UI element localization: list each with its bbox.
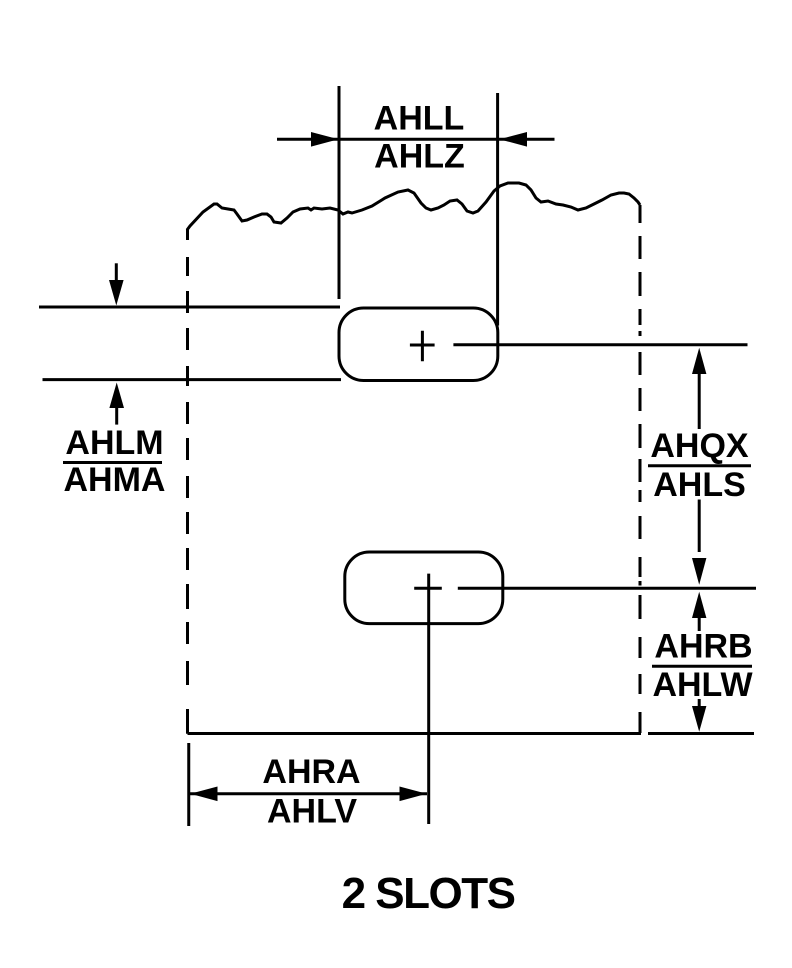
slot 1 (upper) outline bbox=[339, 308, 498, 381]
AHLM up arrow bbox=[109, 383, 124, 425]
AHLL left extension line bbox=[338, 86, 341, 299]
part right dashed edge bbox=[639, 205, 642, 733]
AHRA arrowhead pointing right bbox=[400, 787, 427, 802]
part left dashed edge bbox=[186, 229, 189, 734]
AHLL dimension line bbox=[277, 138, 555, 141]
AHLL arrowhead pointing left bbox=[500, 132, 528, 147]
fraction bar AHQX/AHLS bbox=[648, 464, 751, 467]
part bottom edge bbox=[188, 732, 642, 735]
slot 1 horizontal centerline leader bbox=[453, 343, 747, 346]
AHLM down arrow bbox=[109, 263, 124, 305]
AHQX up arrow with stem bbox=[692, 348, 706, 429]
svg-text:AHLV: AHLV bbox=[267, 793, 357, 831]
part bottom-right extension line bbox=[648, 732, 754, 735]
svg-text:AHRB: AHRB bbox=[654, 628, 752, 666]
AHRA arrowhead pointing left bbox=[190, 787, 217, 802]
AHLM upper extension line bbox=[39, 306, 340, 309]
AHLM lower extension line bbox=[43, 378, 342, 381]
svg-text:AHLS: AHLS bbox=[653, 466, 746, 504]
AHRA left extension line bbox=[187, 743, 190, 826]
slot 1 center cross bbox=[410, 331, 435, 362]
svg-text:2 SLOTS: 2 SLOTS bbox=[342, 869, 515, 918]
AHRA dimension line bbox=[190, 792, 427, 795]
part top break line (jagged) bbox=[187, 183, 640, 230]
slot 2 vertical centerline / AHRA right extension line bbox=[427, 574, 430, 824]
svg-text:AHLZ: AHLZ bbox=[374, 138, 465, 176]
AHLL right extension line bbox=[496, 93, 499, 326]
fraction bar AHRB/AHLW bbox=[652, 665, 752, 668]
slot 2 center cross bbox=[414, 587, 442, 590]
fraction bar AHLM/AHMA bbox=[63, 461, 162, 464]
AHRB down arrow with stem bbox=[692, 699, 706, 732]
svg-text:AHLW: AHLW bbox=[652, 666, 753, 704]
svg-text:AHMA: AHMA bbox=[64, 461, 166, 499]
slot 2 (lower) outline bbox=[345, 552, 503, 624]
svg-text:AHLM: AHLM bbox=[65, 424, 163, 462]
svg-text:AHLL: AHLL bbox=[374, 100, 465, 138]
AHRB up arrow with stem bbox=[692, 592, 706, 631]
AHQX down arrow with stem bbox=[692, 500, 706, 585]
slot 2 horizontal centerline leader bbox=[458, 587, 756, 590]
AHLL arrowhead pointing right bbox=[311, 132, 339, 147]
svg-text:AHRA: AHRA bbox=[262, 753, 360, 791]
svg-text:AHQX: AHQX bbox=[650, 427, 749, 465]
